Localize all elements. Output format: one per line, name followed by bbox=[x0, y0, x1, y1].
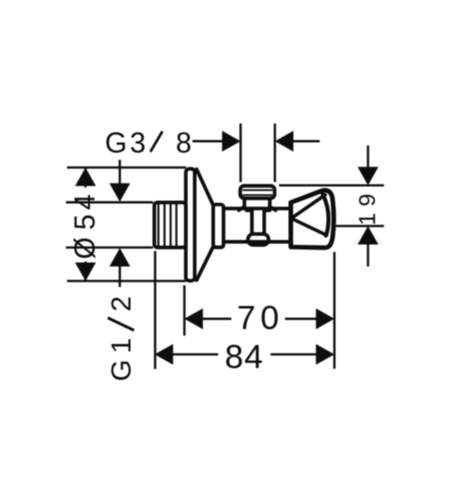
svg-text:G12: G12 bbox=[106, 296, 137, 381]
svg-text:Ø54: Ø54 bbox=[70, 194, 102, 259]
svg-text:84: 84 bbox=[225, 339, 263, 376]
